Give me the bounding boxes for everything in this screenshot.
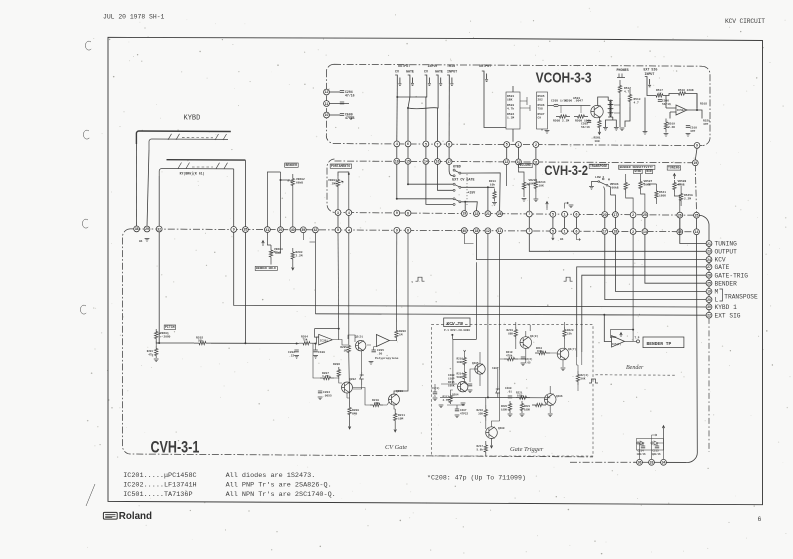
svg-text:28: 28 — [498, 212, 502, 216]
diode D204 — [650, 441, 658, 445]
op-amp IC501 — [612, 336, 625, 348]
junction gate h1 — [487, 396, 489, 398]
svg-text:4.7k: 4.7k — [507, 106, 514, 110]
svg-text:56K: 56K — [581, 377, 586, 380]
wire transpose common — [592, 176, 605, 212]
resistor R516 — [672, 92, 692, 95]
svg-text:11: 11 — [325, 102, 329, 106]
wire rowC-rowD interconnect — [337, 215, 339, 227]
wire connector column segment — [708, 270, 710, 273]
svg-text:1BK: 1BK — [507, 98, 513, 101]
ground T501 a — [603, 128, 608, 131]
svg-text:21: 21 — [707, 242, 711, 246]
svg-text:6: 6 — [407, 142, 409, 146]
svg-text:12: 12 — [325, 90, 329, 94]
ground below node 29 — [145, 239, 150, 242]
svg-text:CV: CV — [395, 70, 399, 74]
arrow +15 a — [546, 202, 549, 209]
svg-text:180K: 180K — [501, 408, 508, 411]
svg-text:25: 25 — [695, 214, 699, 218]
svg-text:18: 18 — [614, 230, 618, 234]
node 40 row D — [290, 227, 296, 233]
svg-text:47P: 47P — [703, 123, 708, 126]
wire rowA-rowB interconnect — [396, 147, 398, 159]
connector node 19 M — [706, 289, 712, 295]
ground C205 — [369, 362, 374, 365]
transistor Q208 — [520, 337, 532, 349]
wire GATE feed — [577, 267, 707, 357]
junction cv a — [244, 342, 246, 344]
svg-text:1: 1 — [518, 143, 520, 147]
wire q209 links — [486, 370, 500, 429]
node 4 row C — [346, 210, 352, 216]
transistor Q207 — [557, 348, 569, 360]
resistor R517 — [653, 94, 666, 97]
svg-text:Roland: Roland — [119, 511, 152, 522]
svg-text:19: 19 — [693, 161, 697, 165]
svg-text:VOLUME: VOLUME — [520, 163, 532, 167]
svg-text:26: 26 — [678, 213, 682, 217]
node 14 row D — [642, 229, 648, 235]
svg-text:CV: CV — [424, 70, 428, 74]
wire bender sens links — [626, 184, 657, 212]
wire pin CV in down — [425, 84, 428, 141]
node 4 row A — [394, 141, 400, 147]
svg-text:2.2M: 2.2M — [296, 254, 303, 257]
wire q208 drop — [500, 325, 531, 363]
wire rowC-rowD interconnect — [614, 217, 616, 228]
resistor R208 — [337, 367, 340, 379]
svg-text:*C208: 47p (Up To 711099): *C208: 47p (Up To 711099) — [427, 475, 526, 482]
junction sw2 feed — [407, 183, 409, 185]
capacitor C205a — [340, 102, 344, 104]
resistor R222b — [535, 351, 550, 354]
potentiometer VR507 — [639, 179, 642, 191]
resistor R203 — [291, 248, 294, 263]
wire c207 tap — [447, 405, 465, 409]
svg-text:282: 282 — [538, 98, 543, 101]
diode D202 — [496, 386, 500, 397]
test point circle — [637, 340, 640, 343]
svg-text:100/16: 100/16 — [637, 453, 647, 456]
svg-text:TRANSPOSE: TRANSPOSE — [724, 294, 758, 301]
junction cv c — [315, 343, 317, 345]
svg-text:10M: 10M — [398, 417, 403, 420]
svg-text:18: 18 — [475, 229, 479, 233]
bus row C wire (CVH-3-2 bottom) — [335, 213, 697, 216]
svg-text:4.7: 4.7 — [634, 101, 639, 104]
wire module link — [520, 97, 530, 111]
svg-text:16: 16 — [436, 160, 440, 164]
wire IC201 minus input — [317, 337, 319, 343]
svg-text:21: 21 — [486, 212, 490, 216]
node 32 row D — [156, 226, 162, 232]
svg-text:56/16: 56/16 — [581, 125, 590, 129]
wire ic501 up — [632, 234, 634, 329]
wire q202 base — [313, 344, 342, 384]
connector pin ext sig — [645, 77, 651, 87]
label PORTAMENTO box — [330, 164, 351, 169]
node 33 row E — [649, 459, 655, 465]
svg-text:47K: 47K — [374, 402, 379, 405]
wire sw from node17 — [449, 164, 453, 175]
ground C510 — [686, 134, 691, 137]
resistor R225 — [576, 371, 579, 385]
potentiometer VR506 — [624, 179, 627, 193]
svg-text:Q2(5): Q2(5) — [355, 335, 363, 339]
ground small c — [569, 205, 574, 208]
svg-text:L: L — [715, 297, 719, 304]
node 6 row D — [574, 228, 580, 234]
ground c208b — [521, 363, 526, 366]
node 6 row A — [405, 141, 411, 147]
svg-text:180K: 180K — [524, 408, 531, 411]
keyboard bus 1 dashed middle — [182, 137, 213, 139]
svg-text:IC202.....LF13741H: IC202.....LF13741H — [123, 482, 196, 490]
node 41 row D — [265, 227, 271, 233]
node 4 row D — [346, 227, 352, 233]
op-amp IC201 — [319, 334, 333, 345]
svg-text:Q2(8): Q2(8) — [530, 334, 538, 338]
svg-text:4: 4 — [348, 228, 350, 232]
svg-text:R508 2.2M: R508 2.2M — [553, 120, 569, 123]
VR203 wiper arrow — [271, 251, 276, 253]
svg-text:GS: GS — [560, 238, 564, 241]
svg-text:758: 758 — [538, 107, 543, 110]
wire res taps — [561, 106, 581, 114]
svg-text:INPUT: INPUT — [447, 71, 457, 75]
ground q207 — [561, 368, 566, 371]
main CV horizontal wire — [156, 342, 316, 344]
svg-text:TRIG: TRIG — [447, 65, 455, 69]
ground T501 b — [614, 128, 619, 131]
svg-text:34: 34 — [662, 461, 666, 465]
wire q208 links — [498, 322, 526, 397]
svg-text:Q2(7): Q2(7) — [568, 347, 576, 351]
svg-text:470k: 470k — [506, 353, 513, 357]
capacitor C206g — [468, 384, 472, 386]
junction sw3 feed — [396, 198, 398, 200]
bus row A wire (VCOH bottom) — [334, 144, 703, 146]
connector node 25 BENDER — [706, 280, 712, 286]
wire rowA-rowB interconnect — [425, 147, 427, 159]
wire rowC-rowD interconnect — [552, 217, 554, 228]
svg-text:JUL 20 1978 SH-1: JUL 20 1978 SH-1 — [103, 14, 165, 21]
svg-text:Bender: Bender — [626, 365, 644, 371]
transformer T501 secondary — [610, 100, 613, 117]
svg-text:3: 3 — [337, 211, 339, 215]
junction bender — [280, 179, 282, 181]
capacitor C208b — [521, 357, 525, 359]
wire jog B — [408, 108, 438, 109]
wire rowC-rowD interconnect — [679, 218, 681, 229]
wire right bus from rowD node 14 — [686, 235, 697, 463]
wire pin CV out down — [396, 84, 399, 141]
node 15 row D — [677, 229, 683, 235]
svg-text:7: 7 — [528, 212, 530, 216]
ic501 up arrow — [620, 333, 623, 338]
wire c205 tap — [374, 347, 377, 351]
wire node42 stub left — [310, 241, 316, 243]
capacitor C201 — [313, 350, 317, 352]
svg-text:17: 17 — [614, 213, 618, 217]
wire fet links — [333, 335, 371, 345]
resistor R216x — [463, 356, 466, 366]
svg-text:GS: GS — [139, 240, 143, 243]
capacitor C203 series — [554, 105, 558, 107]
node 35 row D — [243, 227, 249, 233]
transistor Q204 — [458, 382, 468, 392]
svg-text:66kB: 66kB — [296, 180, 303, 184]
svg-text:47P22: 47P22 — [460, 412, 468, 415]
svg-text:BENDER HOLD: BENDER HOLD — [256, 267, 276, 270]
node 40 row D — [461, 228, 467, 234]
transpose switch — [599, 182, 607, 185]
capacitor C103 — [433, 392, 437, 394]
ground q204 b — [461, 403, 466, 406]
node 10 VCOH left — [324, 112, 330, 118]
svg-text:KY(BRG)(K 61): KY(BRG)(K 61) — [180, 172, 205, 176]
wire transpose right — [608, 186, 616, 212]
wire R210 q203 — [383, 402, 389, 405]
potentiometer VR204 — [336, 176, 339, 190]
svg-text:10: 10 — [325, 113, 329, 117]
node 25 row C — [642, 212, 648, 218]
wire tp link — [633, 340, 636, 342]
svg-text:30: 30 — [707, 305, 711, 309]
capacitor C205 poly — [372, 350, 376, 352]
ground R505 module — [545, 131, 550, 134]
label PITCH box — [164, 325, 176, 330]
wire bottom cluster mid — [652, 434, 658, 443]
svg-text:17: 17 — [447, 160, 451, 164]
junction ic501 fb — [632, 329, 634, 331]
wire C201 tap — [315, 344, 317, 350]
junction sw3 out — [464, 201, 466, 203]
svg-text:EXT SIG: EXT SIG — [644, 68, 658, 72]
wire KYBD1 long feed — [234, 232, 707, 307]
svg-text:Polypropylene: Polypropylene — [375, 356, 399, 360]
wire sw2 output — [461, 187, 495, 211]
wire sw1 output — [461, 173, 500, 211]
svg-text:24: 24 — [707, 258, 711, 262]
keyboard bus 2 dashed middle — [192, 166, 213, 168]
svg-text:Q202: Q202 — [349, 378, 356, 381]
svg-text:+-2000: +-2000 — [160, 335, 171, 338]
resistor R214 — [463, 371, 466, 380]
svg-text:32: 32 — [157, 227, 161, 231]
wire node42 drop — [314, 233, 316, 314]
junction ext sig branch — [603, 314, 605, 316]
wire rowA-rowB interconnect — [506, 147, 508, 159]
wire M feed — [615, 234, 706, 291]
node 1 row A — [516, 142, 522, 148]
svg-text:KCV TP: KCV TP — [447, 321, 464, 327]
node 12 row D — [485, 228, 491, 234]
wire node4 drop long — [348, 233, 351, 401]
svg-text:28: 28 — [707, 273, 711, 277]
svg-text:R2(4): R2(4) — [581, 373, 589, 377]
wire pin GATE out down — [408, 84, 410, 141]
resistor R206 — [395, 327, 398, 341]
op-amp IC202 — [376, 335, 389, 347]
wire kybd bus1 left drop — [135, 144, 137, 226]
wire opamp in — [666, 108, 676, 119]
wire q202-q203 — [353, 388, 371, 406]
node 5 row D — [550, 228, 556, 234]
wire connector column segment — [708, 286, 710, 289]
svg-text:25: 25 — [707, 281, 711, 285]
svg-text:15: 15 — [406, 160, 410, 164]
svg-text:.22: .22 — [289, 354, 294, 357]
svg-text:C100: C100 — [318, 351, 325, 354]
node 7 row C — [526, 211, 532, 217]
keyboard bus 2 contact rail — [159, 169, 234, 177]
node 9 row C — [394, 210, 400, 216]
svg-text:BENDER SENSITIVITY: BENDER SENSITIVITY — [620, 165, 654, 169]
node 5 row A — [423, 141, 429, 147]
wire R206 top — [396, 233, 398, 327]
wire BENDER feed — [645, 234, 706, 283]
switch dashed gang — [466, 174, 468, 205]
arrow down d — [552, 234, 554, 240]
resistor R224 — [532, 403, 546, 406]
registration mark 1 — [85, 41, 91, 50]
node 5 row D — [335, 227, 341, 233]
svg-text:IC502: IC502 — [677, 109, 685, 112]
svg-text:5: 5 — [552, 229, 554, 233]
svg-text:A501: A501 — [573, 97, 580, 100]
node 2 row D — [630, 229, 636, 235]
portamento top bar — [338, 172, 349, 176]
connector node 30 KYBD 1 — [706, 304, 712, 310]
gate-trig pulse symbol — [564, 277, 573, 281]
Roland logo mark — [103, 512, 117, 519]
node 21 row C — [485, 211, 491, 217]
node 3 row C — [335, 210, 341, 216]
resistor R209 — [348, 401, 351, 421]
node 11 row B — [533, 159, 539, 165]
wire connector column segment — [708, 246, 710, 248]
svg-text:2MA: 2MA — [332, 182, 337, 185]
wire rowA-rowB interconnect — [407, 147, 409, 159]
svg-text:CVH-3-1: CVH-3-1 — [151, 438, 200, 456]
node 25 row C — [694, 212, 700, 218]
arrow RSH1 down — [598, 130, 601, 135]
wire KCV feed — [476, 234, 706, 260]
pulse symbol 3 — [416, 277, 425, 281]
connector pin CV out — [395, 75, 401, 85]
potentiometer VR205 — [522, 175, 525, 198]
svg-text:47kB: 47kB — [274, 250, 281, 254]
junction jog A — [396, 96, 398, 98]
svg-text:18: 18 — [395, 160, 399, 164]
svg-text:6: 6 — [575, 230, 577, 234]
svg-text:5.6k: 5.6k — [477, 447, 484, 451]
resistor R202 — [194, 341, 211, 344]
wire OUTPUT feed — [529, 234, 706, 252]
svg-text:500k: 500k — [457, 375, 464, 379]
connector pin CV in — [425, 75, 431, 85]
junction kcv tp — [451, 334, 453, 336]
wire pin TRIG down — [448, 84, 450, 141]
svg-text:150k: 150k — [537, 350, 543, 353]
node 19 row C — [461, 211, 467, 217]
wire volume links — [529, 165, 536, 211]
arrow R209 down — [348, 421, 351, 429]
arrow hook e — [576, 234, 580, 241]
wire kybd bus1 contact drop — [147, 150, 149, 226]
page border frame — [108, 37, 763, 504]
node 28 row C — [497, 211, 503, 217]
svg-text:KYBD: KYBD — [453, 164, 461, 168]
svg-text:OUTPUT: OUTPUT — [479, 65, 491, 69]
connector pin main out — [482, 71, 488, 81]
transistor Q210 fet — [356, 341, 366, 351]
svg-text:180K: 180K — [659, 194, 666, 197]
svg-text:1M: 1M — [399, 333, 403, 336]
svg-text:4.7M: 4.7M — [443, 399, 450, 402]
svg-text:C1(3): C1(3) — [432, 386, 440, 390]
wire connector column segment — [708, 262, 710, 264]
wire ext res drop — [644, 98, 646, 132]
wire bender sens tops — [626, 174, 641, 179]
resistor R219 — [514, 327, 517, 339]
ground R201 — [154, 359, 159, 362]
keyboard bus 1 upper rail — [136, 131, 230, 144]
wire main out down — [484, 80, 506, 128]
resistor R234 — [534, 178, 537, 192]
svg-text:7: 7 — [528, 229, 530, 233]
resistor R541 — [655, 189, 658, 200]
svg-text:9: 9 — [396, 211, 398, 215]
transformer T501 primary — [608, 100, 611, 117]
wire r225 links — [577, 352, 582, 391]
svg-text:.50: .50 — [377, 352, 382, 355]
svg-text:100k: 100k — [457, 360, 464, 364]
ground transpose — [589, 187, 594, 190]
wire q207 links — [550, 322, 565, 367]
svg-text:OUTPUT: OUTPUT — [715, 249, 738, 256]
resistor R545 — [679, 192, 682, 202]
gate trigger dashed box — [431, 325, 593, 456]
svg-text:LOW: LOW — [595, 175, 601, 179]
wire rowC-rowD interconnect — [604, 217, 606, 228]
svg-text:CV Gate: CV Gate — [385, 444, 407, 451]
ground q204 a — [439, 405, 444, 408]
VR202 wiper arrow — [288, 180, 293, 182]
capacitor C204 — [340, 91, 344, 93]
registration mark 4 — [80, 305, 86, 314]
arrow R203 down — [292, 263, 295, 270]
coil T501 secondary wire — [614, 105, 620, 113]
VR507 wiper arrow — [641, 183, 645, 185]
svg-text:50k: 50k — [612, 336, 617, 339]
wire connector column segment — [708, 278, 710, 280]
IC201 feedback wire — [315, 329, 339, 340]
node 11 row D — [497, 228, 503, 234]
ground ext cluster — [643, 132, 648, 135]
connector node 20 L — [706, 297, 712, 303]
svg-text:400B: 400B — [678, 183, 685, 186]
op-amp IC502 — [676, 105, 687, 115]
wire pitch line — [156, 341, 159, 343]
ground C204b — [318, 397, 323, 400]
node 18 row D — [613, 229, 619, 235]
junction cv b — [296, 343, 298, 345]
svg-text:17: 17 — [603, 230, 607, 234]
svg-text:47/16: 47/16 — [345, 116, 355, 120]
